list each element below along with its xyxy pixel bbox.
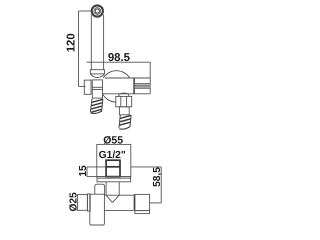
svg-text:98.5: 98.5 (108, 52, 131, 64)
svg-text:58,5: 58,5 (152, 167, 163, 187)
svg-text:15: 15 (78, 165, 89, 177)
svg-text:G1/2": G1/2" (99, 150, 126, 161)
svg-text:120: 120 (65, 33, 77, 52)
svg-text:Ø55: Ø55 (103, 134, 123, 146)
svg-text:Ø25: Ø25 (69, 192, 80, 212)
